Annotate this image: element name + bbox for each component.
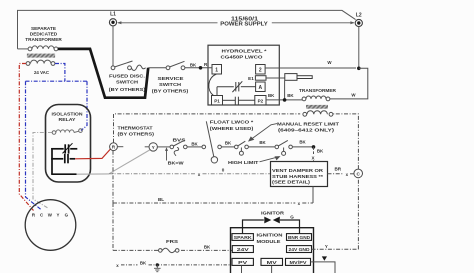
wire vertical to FRS line	[112, 203, 114, 250]
svg-text:(BY OTHERS): (BY OTHERS)	[152, 88, 189, 94]
svg-text:A: A	[258, 85, 262, 91]
wire PV down	[241, 265, 243, 273]
svg-text:DEDICATED: DEDICATED	[30, 32, 58, 37]
wire ground spur x BK	[121, 264, 231, 266]
terminal A	[256, 82, 266, 92]
svg-text:MV: MV	[267, 260, 278, 265]
thick wire transformer to fused disc switch	[58, 49, 148, 98]
transformer T1 secondary	[26, 60, 55, 65]
svg-text:SWITCH: SWITCH	[159, 82, 182, 88]
wire blue 24vac loop	[55, 64, 65, 82]
svg-text:X: X	[311, 156, 315, 161]
svg-text:SPARK: SPARK	[234, 235, 253, 240]
ground symbol	[154, 265, 161, 272]
svg-text:HYDROLEVEL *: HYDROLEVEL *	[222, 48, 267, 54]
wire E1 to probe	[266, 77, 285, 79]
node L2	[355, 12, 362, 26]
terminal 1	[212, 65, 222, 75]
svg-text:BK: BK	[140, 261, 147, 266]
wire red relay to R terminal	[75, 149, 111, 159]
svg-text:(BY OTHERS): (BY OTHERS)	[109, 87, 146, 93]
wire dashed down to vent box with X	[313, 147, 315, 162]
svg-text:G: G	[290, 215, 294, 220]
wire gray relay to fork	[77, 173, 110, 175]
node W thermostat terminal	[149, 143, 157, 151]
wire dash R up and across to transformer secondary	[114, 114, 301, 143]
terminal E1	[255, 76, 266, 81]
terminal P1	[212, 96, 223, 106]
svg-text:x: x	[346, 172, 349, 177]
leader manual reset	[249, 124, 277, 141]
svg-text:BK: BK	[299, 140, 306, 145]
svg-text:(WHERE USED): (WHERE USED)	[210, 126, 254, 132]
wire dash R down to BL line	[112, 151, 114, 203]
svg-text:BK: BK	[225, 141, 232, 146]
wire gray relay coil to wall thermostat W	[33, 133, 52, 209]
svg-text:BR: BR	[334, 167, 341, 172]
svg-text:x: x	[198, 172, 201, 177]
svg-text:BK: BK	[317, 149, 324, 154]
transformer T1 separate dedicated : primary	[18, 46, 58, 51]
wire blue down to relay coil	[81, 81, 87, 130]
svg-text:P2: P2	[258, 99, 264, 104]
svg-text:C: C	[40, 213, 44, 218]
svg-text:x: x	[116, 263, 119, 268]
wire red 24vac to wall thermostat R	[19, 64, 33, 211]
svg-text:PV: PV	[238, 260, 248, 265]
svg-text:R: R	[112, 145, 116, 150]
wire FRS line left	[113, 249, 158, 251]
terminal 24V	[232, 246, 253, 253]
node ground dot	[156, 263, 159, 266]
svg-text:BK: BK	[191, 141, 198, 146]
wall thermostat circle	[25, 200, 76, 251]
svg-text:W: W	[351, 93, 356, 98]
svg-text:0: 0	[222, 167, 225, 172]
svg-text:TRANSFORMER: TRANSFORMER	[299, 88, 337, 94]
svg-text:BK: BK	[259, 140, 266, 145]
svg-text:BNR GND: BNR GND	[288, 235, 311, 240]
terminal PV	[232, 258, 253, 265]
capacitor probe A row	[217, 81, 256, 95]
label FLOAT LWCO (WHERE USED)	[210, 120, 254, 132]
wire blue down to wall thermostat C	[26, 81, 42, 210]
node L1	[109, 12, 116, 26]
wire BR from vent box to C	[328, 173, 355, 175]
svg-text:2: 2	[259, 68, 262, 74]
wire P2 BK to transformer	[266, 99, 302, 101]
svg-text:BL: BL	[158, 197, 164, 202]
svg-text:MODULE: MODULE	[257, 239, 282, 245]
svg-text:P1: P1	[214, 99, 220, 104]
relay K1 isolation relay box	[46, 105, 91, 183]
svg-text:Y: Y	[152, 145, 155, 150]
svg-text:IGNITION: IGNITION	[257, 233, 284, 239]
svg-text:G: G	[65, 213, 69, 218]
wire MV down	[271, 265, 273, 273]
svg-text:SERVICE: SERVICE	[158, 76, 185, 82]
terminal 24V GND	[287, 246, 312, 253]
node junction dot main line	[312, 145, 316, 149]
wire L2 down to W junction	[358, 27, 360, 69]
relay K1 contacts	[51, 144, 77, 174]
svg-text:FLOAT LWCO *: FLOAT LWCO *	[210, 120, 254, 126]
svg-text:(BY OTHERS): (BY OTHERS)	[118, 132, 155, 138]
svg-text:FUSED DISC.: FUSED DISC.	[109, 74, 145, 80]
wire BL line	[113, 202, 313, 204]
wire L1 down to fused disc switch	[112, 26, 114, 66]
switch manual reset limit	[235, 141, 275, 155]
svg-text:W: W	[327, 60, 332, 65]
transformer T2 primary	[302, 96, 330, 101]
arrow marker on MV/PV wire	[322, 256, 327, 260]
wire to service switch	[148, 67, 166, 69]
svg-text:STUB HARNESS **: STUB HARNESS **	[272, 174, 323, 180]
ignitor bracket	[243, 220, 300, 234]
relay K1 coil	[52, 129, 82, 135]
relay contact slash	[63, 143, 73, 153]
svg-text:VENT DAMPER OR: VENT DAMPER OR	[272, 168, 324, 174]
label SEPARATE DEDICATED TRANSFORMER	[25, 26, 62, 42]
svg-text:SEPARATE: SEPARATE	[31, 26, 56, 31]
svg-text:BK: BK	[190, 62, 197, 67]
svg-text:24V: 24V	[237, 247, 250, 252]
wire L2 junction to transformer primary	[330, 68, 368, 99]
svg-text:RELAY: RELAY	[59, 117, 77, 123]
svg-text:ISOLASTION: ISOLASTION	[52, 112, 84, 118]
node C terminal	[354, 169, 363, 178]
svg-text:HIGH LIMIT: HIGH LIMIT	[228, 160, 259, 166]
svg-text:1: 1	[215, 68, 218, 74]
svg-text:24 VAC: 24 VAC	[34, 70, 49, 76]
svg-text:E1: E1	[248, 76, 254, 81]
svg-text:SWITCH: SWITCH	[116, 80, 139, 86]
svg-text:L1: L1	[110, 12, 116, 18]
svg-text:BK: BK	[268, 93, 275, 98]
wire C up to transformer secondary	[333, 114, 358, 169]
terminal BNR GND	[287, 234, 312, 241]
fuse FRS	[159, 248, 180, 252]
terminal P2	[255, 96, 266, 106]
wire probe down to BK junction	[284, 81, 286, 100]
switch service	[166, 61, 212, 69]
svg-text:Y: Y	[325, 244, 328, 249]
svg-text:CG450P LWCO: CG450P LWCO	[221, 54, 263, 60]
node junction dot L2	[357, 67, 361, 71]
label MANUAL RESET LIMIT (6409-6412 ONLY)	[277, 122, 339, 134]
svg-text:BK: BK	[204, 244, 211, 249]
probe LWCO sensor	[285, 74, 297, 81]
svg-text:FRS: FRS	[166, 239, 178, 244]
switch float LWCO	[202, 121, 234, 163]
svg-text:x: x	[298, 201, 301, 206]
svg-text:C: C	[357, 171, 361, 176]
wire MV/PV right and down	[311, 262, 336, 273]
ignitor spark gap triangles	[264, 217, 271, 224]
transformer T2 core	[306, 105, 328, 109]
svg-text:POWER SUPPLY: POWER SUPPLY	[220, 22, 268, 28]
terminal SPARK	[232, 234, 253, 241]
wire vent box down to BL line	[312, 187, 314, 204]
node junction dot at R input	[199, 66, 203, 70]
wire FRS to 24V	[181, 249, 232, 251]
switch BVS	[170, 141, 202, 149]
svg-text:BVS: BVS	[173, 138, 186, 143]
svg-text:TRANSFORMER: TRANSFORMER	[25, 37, 62, 42]
svg-text:IGNITOR: IGNITOR	[261, 210, 285, 216]
wire 2 to L2 junction W	[265, 67, 356, 69]
label 115/60/1 POWER SUPPLY	[220, 16, 268, 27]
pigtail BK=W	[166, 150, 168, 161]
svg-text:24V GND: 24V GND	[289, 247, 311, 252]
leader high limit	[260, 157, 279, 162]
switch fused disconnect	[111, 61, 145, 70]
label THERMOSTAT (BY OTHERS)	[118, 126, 155, 138]
transformer T2 secondary	[303, 111, 333, 117]
svg-text:(SEE DETAIL): (SEE DETAIL)	[272, 180, 310, 186]
power supply annotation arrow line	[117, 21, 354, 24]
svg-text:Y: Y	[57, 213, 60, 218]
arc 1 to P1	[209, 74, 217, 96]
svg-text:W: W	[48, 213, 53, 218]
wire X line dash-dot to vent damper box	[109, 173, 270, 175]
wire top frame from separate transformer to L2	[18, 10, 356, 49]
svg-text:MV/PV: MV/PV	[290, 260, 308, 265]
box ignition module	[231, 228, 314, 273]
svg-text:L2: L2	[356, 12, 362, 18]
box hydrolevel CG450P LWCO	[208, 45, 279, 105]
switch high limit	[275, 140, 314, 155]
svg-text:BK: BK	[287, 93, 294, 98]
svg-text:(6409–6412 ONLY): (6409–6412 ONLY)	[278, 127, 335, 133]
transformer T1 core	[27, 54, 55, 58]
capacitor P1 P2 row	[223, 97, 255, 105]
svg-text:MANUAL RESET LIMIT: MANUAL RESET LIMIT	[277, 122, 339, 128]
svg-text:R: R	[32, 213, 36, 218]
box vent damper	[271, 162, 328, 187]
svg-text:THERMOSTAT: THERMOSTAT	[118, 126, 153, 132]
wire gray fork diagonal to W terminal	[109, 150, 150, 174]
wire 24V GND to C line	[312, 178, 359, 249]
terminal MV	[261, 258, 283, 265]
node R thermostat terminal	[110, 143, 118, 151]
terminal MV/PV	[286, 258, 311, 265]
svg-text:BK=W: BK=W	[168, 160, 185, 165]
wire blue horizontal	[26, 80, 88, 82]
terminal 2	[256, 65, 266, 75]
